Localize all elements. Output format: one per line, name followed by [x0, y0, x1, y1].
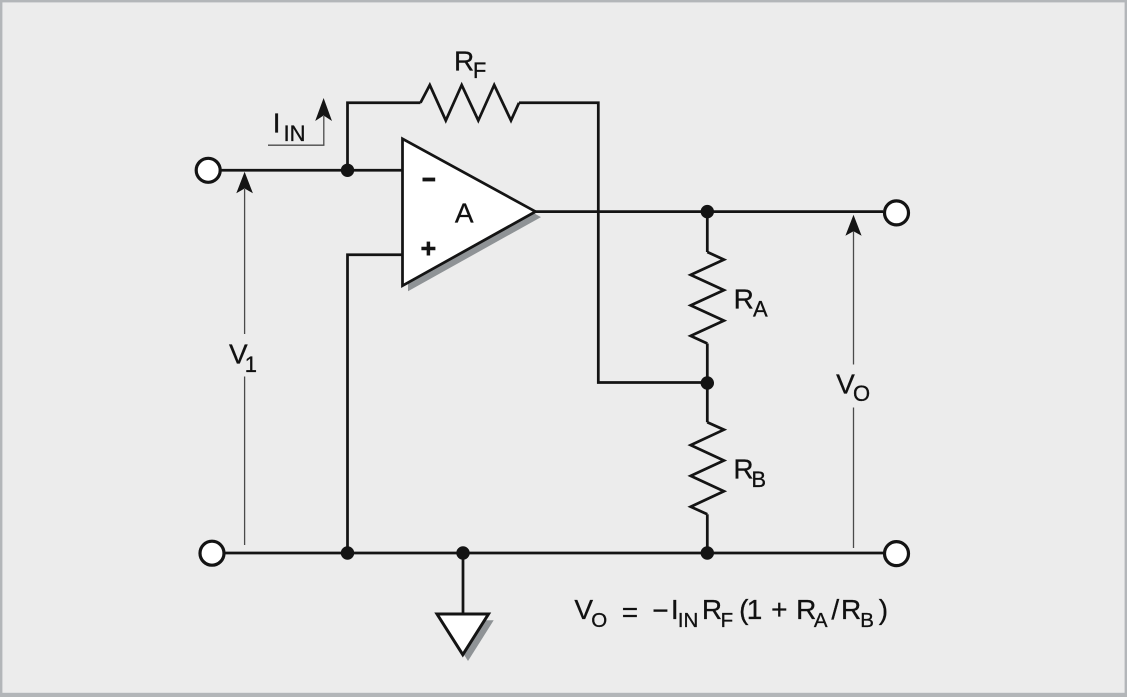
svg-text:IN: IN [678, 609, 699, 632]
svg-text:B: B [860, 609, 874, 632]
svg-text:1: 1 [747, 594, 763, 625]
svg-text:R: R [841, 594, 861, 625]
svg-text:IN: IN [284, 121, 306, 146]
svg-text:F: F [721, 609, 734, 632]
svg-text:): ) [879, 594, 888, 625]
svg-text:R: R [702, 594, 722, 625]
svg-text:O: O [853, 381, 870, 406]
svg-text:+: + [771, 594, 787, 625]
svg-text:O: O [591, 609, 607, 632]
svg-text:F: F [473, 58, 486, 83]
svg-text:B: B [751, 467, 766, 492]
svg-text:/: / [831, 594, 839, 625]
svg-text:−: − [652, 595, 668, 626]
svg-text:=: = [622, 596, 638, 627]
svg-text:A: A [814, 609, 828, 632]
svg-text:A: A [753, 297, 768, 322]
svg-text:R: R [734, 283, 754, 314]
svg-text:R: R [454, 45, 474, 76]
svg-text:A: A [455, 197, 474, 228]
svg-text:I: I [273, 108, 281, 139]
svg-text:1: 1 [245, 352, 257, 377]
